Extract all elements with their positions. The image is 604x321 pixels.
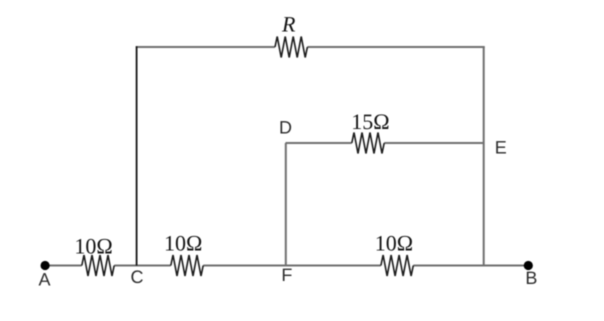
svg-text:E: E — [495, 138, 507, 158]
svg-text:10Ω: 10Ω — [74, 233, 112, 258]
svg-text:R: R — [281, 11, 296, 36]
svg-text:15Ω: 15Ω — [351, 109, 389, 134]
svg-text:F: F — [281, 265, 292, 285]
svg-text:A: A — [38, 270, 50, 290]
svg-text:D: D — [279, 117, 292, 137]
svg-text:C: C — [131, 267, 144, 287]
svg-text:10Ω: 10Ω — [164, 230, 202, 255]
svg-text:10Ω: 10Ω — [375, 230, 413, 255]
svg-text:B: B — [525, 268, 537, 288]
